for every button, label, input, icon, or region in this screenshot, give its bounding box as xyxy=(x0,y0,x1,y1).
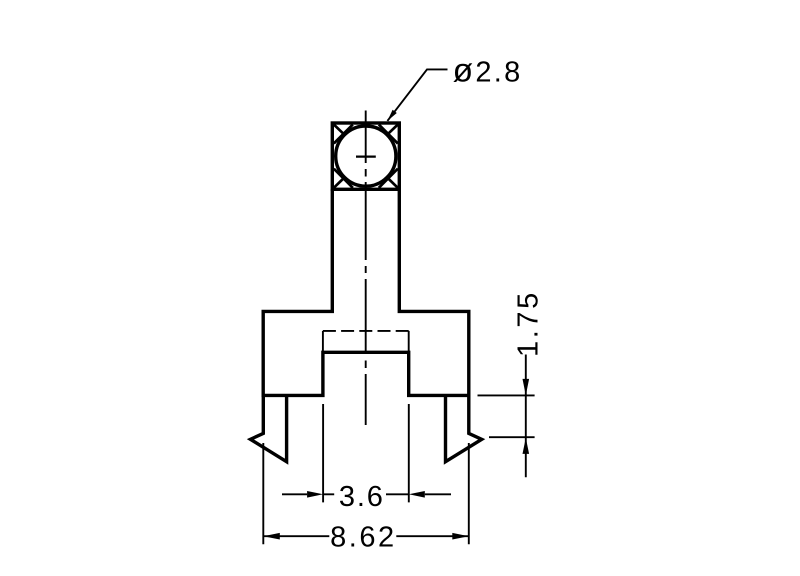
arrow 3.6 right xyxy=(409,491,425,498)
extension line 8.62 right xyxy=(468,443,470,544)
body outline xyxy=(263,189,469,395)
extension line 1.75 upper xyxy=(478,394,535,396)
corner mark top-left xyxy=(334,125,353,144)
hidden line top xyxy=(323,330,409,332)
hidden line right xyxy=(408,331,410,352)
arrow 1.75 lower xyxy=(523,438,530,454)
svg-text:1.75: 1.75 xyxy=(512,290,544,357)
dimension line 3.6 right outside xyxy=(425,493,451,495)
hidden line left xyxy=(322,331,324,352)
left leg xyxy=(250,395,286,461)
center crosshair xyxy=(356,156,376,158)
extension line 1.75 lower xyxy=(489,436,535,438)
dimension line 3.6 left outside xyxy=(282,493,307,495)
arrow 8.62 left xyxy=(263,533,280,540)
dimension line 8.62 xyxy=(263,535,469,537)
arrow 3.6 left xyxy=(307,491,323,498)
extension line 3.6 left xyxy=(322,404,324,502)
extension line 3.6 right xyxy=(408,404,410,502)
svg-text:ø2.8: ø2.8 xyxy=(453,52,523,89)
right leg xyxy=(446,395,482,461)
svg-text:8.62: 8.62 xyxy=(330,521,397,553)
leader arrowhead xyxy=(387,110,396,121)
arrow 8.62 right xyxy=(452,533,469,540)
corner mark bottom-left xyxy=(334,169,353,188)
label 8.62 mask xyxy=(329,521,396,549)
leader line ø2.8 xyxy=(387,69,447,121)
corner mark bottom-right xyxy=(379,169,398,188)
arrow 1.75 upper xyxy=(523,379,530,396)
svg-text:3.6: 3.6 xyxy=(339,481,385,513)
vertical centerline xyxy=(365,111,367,426)
extension line 8.62 left xyxy=(262,443,264,544)
square boss outline xyxy=(332,123,399,189)
circle bore ø2.8 xyxy=(336,126,396,186)
dimension line 3.6 inner xyxy=(323,493,409,495)
label 3.6 mask xyxy=(334,482,386,508)
dimension line 1.75 xyxy=(525,355,527,478)
corner mark top-right xyxy=(379,125,398,144)
